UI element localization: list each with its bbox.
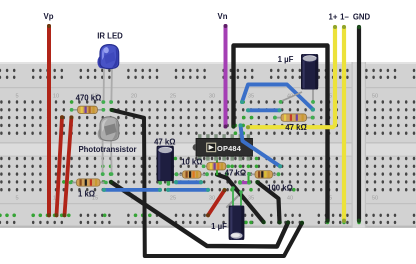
breadboard center channel xyxy=(0,142,416,156)
op-amp U1 OP484 xyxy=(193,134,253,160)
svg-text:Phototransistor: Phototransistor xyxy=(78,145,136,154)
svg-text:5: 5 xyxy=(15,196,18,202)
svg-text:Vn: Vn xyxy=(218,12,228,21)
label Vp xyxy=(44,12,54,21)
wire violet short row I xyxy=(238,181,251,185)
svg-text:5: 5 xyxy=(15,94,18,100)
svg-text:35: 35 xyxy=(248,196,254,202)
breadboard hole grid xyxy=(0,69,415,224)
svg-text:10 kΩ: 10 kΩ xyxy=(181,157,202,166)
wire blue bent over chip xyxy=(239,123,283,168)
svg-text:35: 35 xyxy=(248,94,254,100)
svg-text:20: 20 xyxy=(131,94,137,100)
label Phototransistor xyxy=(78,145,136,154)
label 1- xyxy=(340,13,349,22)
wire red jumper 4 xyxy=(206,188,227,217)
svg-text:50: 50 xyxy=(372,196,378,202)
wire blue row J segment 1 xyxy=(102,188,162,192)
wire black bent jumper xyxy=(256,180,282,224)
resistor R1 470k xyxy=(70,106,105,113)
label Vn xyxy=(218,12,228,21)
green lead column 34 xyxy=(248,172,250,183)
resistor R4 47k xyxy=(202,163,231,170)
breadboard middle seam xyxy=(352,62,367,228)
svg-text:30: 30 xyxy=(209,94,215,100)
IR LED D1 xyxy=(97,45,118,104)
resistor R2 1k xyxy=(69,179,108,186)
phototransistor Q1 xyxy=(98,117,119,176)
wire blue row B segment xyxy=(246,108,282,112)
svg-text:47 kΩ: 47 kΩ xyxy=(225,169,246,178)
resistor R5 100k xyxy=(247,171,280,178)
resistor R6 47k xyxy=(273,114,314,121)
capacitor C2 xyxy=(157,146,174,186)
resistor R3 10k xyxy=(175,171,209,178)
wire gray jumper xyxy=(227,192,242,207)
svg-text:470 kΩ: 470 kΩ xyxy=(76,94,102,103)
svg-text:47 kΩ: 47 kΩ xyxy=(285,123,306,132)
wire black diagonal jumper xyxy=(215,173,266,225)
wire black long loop lower xyxy=(109,180,290,247)
label 10 kOhm xyxy=(181,157,202,166)
svg-text:1+: 1+ xyxy=(329,13,338,22)
svg-text:47 kΩ: 47 kΩ xyxy=(154,137,175,146)
svg-text:10: 10 xyxy=(53,94,59,100)
svg-text:OP484: OP484 xyxy=(217,144,242,153)
capacitor C3 1uF xyxy=(229,186,245,240)
breadboard body xyxy=(0,62,416,228)
svg-text:1 µF: 1 µF xyxy=(211,222,227,231)
wire 1- yellow vertical xyxy=(342,25,346,223)
label 1 uF C1 xyxy=(278,55,294,64)
label 47 kOhm R4 xyxy=(225,169,246,178)
wire red jumper 3 xyxy=(63,115,74,217)
wire blue row I segment xyxy=(174,180,203,184)
wire Vp red vertical xyxy=(47,24,51,217)
svg-text:25: 25 xyxy=(170,196,176,202)
wire black loop top-right xyxy=(232,46,330,223)
label IR LED xyxy=(97,32,123,41)
label 1+ xyxy=(329,13,338,22)
label 100 kOhm xyxy=(267,184,293,193)
wire black long loop left xyxy=(110,108,304,256)
wire Vn purple vertical xyxy=(224,24,228,129)
svg-text:100 kΩ: 100 kΩ xyxy=(267,184,293,193)
label 1 kOhm xyxy=(78,189,95,198)
label 47 kOhm C2 xyxy=(154,137,175,146)
svg-text:Vp: Vp xyxy=(44,12,54,21)
wire 1+ yellow bent xyxy=(246,25,337,129)
wire blue arch top xyxy=(240,85,315,112)
capacitor C1 1uF xyxy=(279,54,318,104)
wire blue row J segment 2 xyxy=(166,188,210,192)
svg-text:GND: GND xyxy=(353,13,371,22)
green lead column 30 xyxy=(216,158,218,176)
svg-text:30: 30 xyxy=(209,196,215,202)
svg-text:IR LED: IR LED xyxy=(97,32,123,41)
label 1 uF C3 xyxy=(211,222,227,231)
label GND xyxy=(353,13,371,22)
svg-text:1–: 1– xyxy=(340,13,349,22)
svg-text:50: 50 xyxy=(372,94,378,100)
svg-text:25: 25 xyxy=(170,94,176,100)
label 470 kOhm xyxy=(76,94,102,103)
label 47 kOhm R6 xyxy=(285,123,306,132)
svg-text:1 µF: 1 µF xyxy=(278,55,294,64)
wire GND black vertical xyxy=(357,25,361,223)
connected holes (green nodes) xyxy=(0,100,361,224)
breadboard column numbers xyxy=(15,94,378,202)
svg-text:1 kΩ: 1 kΩ xyxy=(78,189,95,198)
wire red jumper 2 xyxy=(55,115,65,217)
svg-text:40: 40 xyxy=(287,196,293,202)
